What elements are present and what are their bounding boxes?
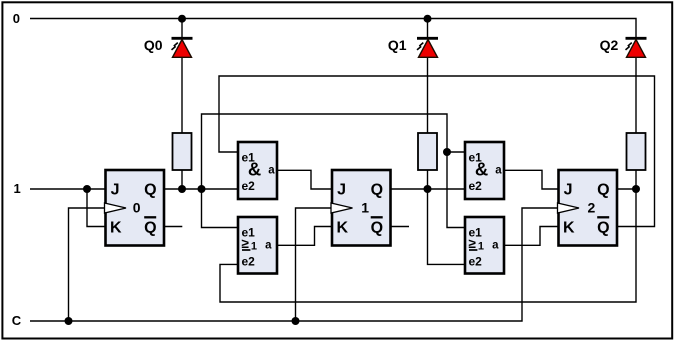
wire AND2 e1 branch	[447, 151, 465, 153]
wire Q2 feedback to OR1 e2	[220, 189, 636, 302]
FF2 clock triangle	[558, 203, 580, 213]
wire OR1 out to K1	[276, 227, 332, 246]
node junction R2 on Q1 line	[424, 185, 432, 193]
svg-text:e2: e2	[242, 179, 256, 193]
svg-text:J: J	[564, 182, 573, 199]
svg-text:≥: ≥	[242, 236, 250, 251]
svg-text:2: 2	[588, 199, 596, 215]
svg-text:e2: e2	[469, 255, 483, 269]
wire clock FF1	[296, 208, 333, 321]
wire AND1 out to J1	[277, 170, 332, 189]
OR U2 underline	[242, 249, 250, 251]
svg-text:0: 0	[133, 199, 141, 215]
svg-text:J: J	[337, 182, 346, 199]
node junction on J0 line	[83, 185, 91, 193]
svg-text:1: 1	[14, 181, 21, 196]
wire Q1 output line to AND2 e2	[391, 188, 466, 190]
svg-text:&: &	[475, 159, 488, 180]
OR U4 underline	[469, 249, 477, 251]
svg-text:a: a	[492, 240, 499, 252]
svg-text:a: a	[268, 165, 275, 177]
flip-flop FF2 body	[559, 170, 618, 246]
wire AND2 out to J2	[504, 170, 559, 189]
svg-text:1: 1	[478, 240, 484, 252]
svg-text:1: 1	[251, 240, 257, 252]
FF1 Q-bar overline	[371, 216, 383, 218]
node junction AND2 e1	[443, 148, 451, 156]
AND gate U3 body	[465, 142, 504, 199]
node junction clock0 on C rail	[65, 317, 73, 325]
wire net 1 to J0	[30, 188, 106, 190]
svg-text:≥: ≥	[469, 236, 477, 251]
svg-text:0: 0	[13, 11, 20, 26]
FF0 clock triangle	[105, 203, 127, 213]
OR gate U2 body	[238, 217, 277, 274]
resistor R1	[173, 133, 192, 170]
LED D3 Q2 light rays	[626, 43, 632, 50]
LED D1 Q0 cathode bar	[172, 37, 193, 40]
svg-text:Q: Q	[144, 220, 156, 237]
flip-flop FF1 body	[332, 170, 391, 246]
svg-text:a: a	[265, 240, 272, 252]
wire OR2 out to K2	[504, 227, 559, 246]
svg-text:C: C	[12, 313, 22, 328]
svg-text:Q: Q	[597, 182, 609, 199]
resistor R2	[418, 133, 437, 170]
wire net 0 (top rail)	[30, 19, 636, 38]
svg-text:Q1: Q1	[388, 37, 407, 53]
node junction LED Q1 on 0 rail	[424, 15, 432, 23]
flip-flop FF0 body	[106, 170, 165, 246]
svg-text:J: J	[111, 182, 120, 199]
LED D1 Q0 triangle	[173, 40, 192, 58]
LED D2 Q1 triangle	[419, 40, 438, 58]
wire Q-bar2 feedback to AND1 e1	[219, 76, 655, 227]
LED Q1 chain wire	[427, 19, 429, 190]
wire Q2 output to junction	[617, 188, 636, 190]
FF1 clock triangle	[331, 203, 353, 213]
wire clock FF0	[69, 208, 106, 321]
svg-text:K: K	[110, 220, 122, 237]
LED D2 Q1 light rays	[417, 43, 423, 50]
svg-text:e2: e2	[469, 179, 483, 193]
node junction Q0 branch	[198, 185, 206, 193]
svg-text:K: K	[337, 220, 349, 237]
svg-text:1: 1	[361, 199, 369, 215]
LED Q0 chain wire	[181, 19, 183, 190]
wire Q-bar1 stub	[391, 226, 410, 228]
FF0 Q-bar overline	[144, 216, 156, 218]
LED D3 Q2 cathode bar	[626, 37, 647, 40]
svg-text:Q: Q	[371, 182, 383, 199]
resistor R3	[627, 133, 646, 170]
wire Q1 branch to OR2 e2	[428, 189, 466, 264]
LED Q2 chain wire	[635, 57, 637, 189]
AND gate U1 body	[238, 142, 277, 199]
OR gate U4 body	[465, 217, 504, 274]
svg-text:Q: Q	[144, 182, 156, 199]
wire Q-bar0 stub	[164, 226, 182, 228]
wire Q0 branch net (to OR1 e1, AND2 e1, OR2 e1)	[202, 114, 466, 228]
LED D3 Q2 triangle	[627, 40, 646, 58]
node junction R1 on Q0 line	[178, 185, 186, 193]
LED D1 Q0 light rays	[172, 43, 178, 50]
svg-text:a: a	[495, 165, 502, 177]
wire K0 feed	[87, 189, 106, 227]
wire Q0 output line to AND1 e2	[164, 188, 238, 190]
svg-text:Q0: Q0	[144, 37, 163, 53]
svg-text:e2: e2	[242, 255, 256, 269]
node junction clock1 on C rail	[292, 317, 300, 325]
svg-text:Q2: Q2	[600, 37, 619, 53]
node junction R3 on Q2 line	[632, 185, 640, 193]
FF2 Q-bar overline	[597, 216, 609, 218]
svg-text:K: K	[563, 220, 575, 237]
node junction LED Q0 on 0 rail	[178, 15, 186, 23]
svg-text:Q: Q	[597, 220, 609, 237]
LED D2 Q1 cathode bar	[417, 37, 438, 40]
svg-text:Q: Q	[371, 220, 383, 237]
svg-text:&: &	[248, 159, 261, 180]
wire net C (clock rail) into FF2 clock	[30, 208, 559, 321]
